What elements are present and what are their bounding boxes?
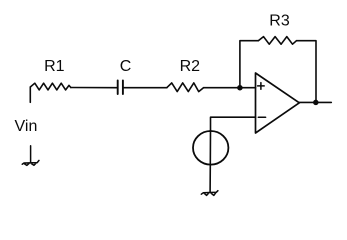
wire R3 right vertical down to output <box>297 41 317 103</box>
svg-text:Vin: Vin <box>15 118 38 135</box>
wire R1 to C <box>71 87 117 89</box>
node junction R3 left / + input <box>237 85 243 91</box>
capacitor C <box>118 80 123 94</box>
svg-text:R2: R2 <box>180 58 201 75</box>
wire Vin stub <box>29 87 31 102</box>
ground below source <box>201 191 218 196</box>
source circle <box>193 131 228 165</box>
svg-text:R1: R1 <box>44 58 65 75</box>
wire R2 to op-amp + input <box>204 87 256 89</box>
wire C to R2 <box>124 87 167 89</box>
wire R3 left vertical <box>240 41 258 88</box>
wire op-amp - input to source <box>211 117 256 130</box>
op-amp U1 <box>256 73 300 133</box>
svg-text:C: C <box>120 58 132 75</box>
node output junction <box>313 100 319 106</box>
svg-text:R3: R3 <box>269 13 290 30</box>
resistor R3 <box>258 37 296 45</box>
wire output <box>299 101 331 103</box>
op-amp plus sign <box>258 83 265 90</box>
resistor R1 <box>30 83 71 90</box>
op-amp minus sign <box>258 116 265 118</box>
wire source to ground <box>209 166 211 193</box>
wire through source circle <box>209 130 211 165</box>
resistor R2 <box>167 83 204 92</box>
ground below Vin <box>22 146 39 166</box>
